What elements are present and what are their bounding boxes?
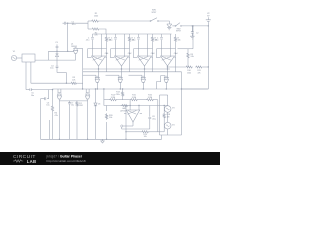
wire (82, 48, 84, 89)
wire (123, 125, 133, 127)
svg-text:http://circuitlab.com/c/3kdvx8: http://circuitlab.com/c/3kdvx8 (47, 159, 86, 163)
source V3 (164, 106, 171, 113)
svg-text:150k: 150k (187, 72, 191, 74)
svg-text:10u: 10u (50, 68, 53, 70)
wire (129, 43, 131, 72)
resistor R10 (185, 66, 193, 68)
wire (30, 62, 32, 83)
wire (122, 97, 124, 100)
svg-text:10u: 10u (31, 95, 34, 97)
junction (82, 88, 83, 89)
wire (121, 72, 123, 78)
junction (181, 88, 182, 89)
wire (172, 25, 175, 27)
wire box left (159, 95, 161, 135)
wire (25, 62, 27, 90)
wire (88, 28, 91, 30)
wire (138, 106, 140, 111)
op-amp OA3 (138, 56, 152, 66)
wire (138, 34, 140, 37)
wire box right (181, 72, 183, 135)
wire (106, 34, 108, 36)
svg-text:3.9M: 3.9M (132, 97, 137, 99)
wire (191, 26, 193, 30)
resistor R11 (195, 66, 203, 68)
wire (106, 43, 108, 72)
wire (92, 34, 94, 37)
wire (167, 66, 169, 72)
wire (87, 99, 89, 139)
svg-text:1M: 1M (167, 116, 170, 118)
wire (98, 66, 100, 72)
wire (88, 57, 92, 59)
junction (166, 88, 167, 89)
wire (124, 34, 126, 56)
resistor R6 (128, 36, 130, 43)
wire (138, 99, 145, 101)
junction (208, 25, 209, 26)
junction (125, 105, 126, 106)
svg-text:.05u: .05u (109, 40, 113, 42)
wire (118, 75, 120, 77)
wire (83, 74, 96, 76)
wire (117, 99, 129, 101)
junction (143, 88, 144, 89)
jack J1 (22, 54, 35, 62)
junction (95, 88, 96, 89)
wire (122, 89, 124, 91)
wire (203, 66, 208, 68)
wire (17, 57, 22, 59)
wire (134, 57, 138, 59)
diode D2 (56, 51, 59, 60)
switch SW1 (150, 20, 151, 21)
wire (48, 90, 50, 99)
op-amp OA2 (115, 56, 129, 66)
wire (115, 34, 117, 37)
ground (190, 35, 195, 39)
wire (111, 57, 115, 59)
wire (142, 82, 144, 89)
wire (161, 135, 163, 139)
wire (76, 107, 78, 139)
svg-text:SPST: SPST (152, 12, 158, 14)
wire (159, 21, 170, 24)
svg-text:10u: 10u (71, 105, 74, 107)
junction (138, 105, 139, 106)
diode D1 (167, 24, 172, 30)
junction (125, 131, 126, 132)
wire (78, 82, 83, 84)
junction (67, 23, 68, 24)
resistor R9 (187, 52, 189, 59)
wire (100, 29, 106, 34)
node bias bus (53, 88, 209, 90)
node feedback (121, 125, 123, 127)
svg-text:24k: 24k (191, 56, 194, 58)
wire (59, 100, 87, 102)
capacitor C7 (91, 38, 94, 39)
wire (47, 98, 49, 100)
wire (122, 128, 150, 130)
op-amp OA4 (161, 56, 175, 66)
wire (152, 34, 154, 36)
battery V2 (206, 17, 211, 22)
wire (129, 74, 142, 76)
node ground bus (41, 138, 162, 140)
wire (100, 20, 151, 22)
resistor R18 (163, 113, 165, 120)
transistor Q3 (118, 76, 123, 82)
svg-text:OA4: OA4 (174, 52, 178, 55)
svg-text:.05u: .05u (86, 40, 90, 42)
resistor R8 (174, 36, 176, 43)
svg-text:10k: 10k (178, 40, 181, 42)
wire (147, 34, 149, 56)
wire (57, 72, 66, 74)
wire (129, 100, 131, 110)
wire (175, 57, 176, 59)
wire (167, 72, 169, 78)
wire (85, 89, 87, 93)
svg-text:10k: 10k (144, 136, 147, 138)
svg-text:3.9M: 3.9M (148, 97, 153, 99)
resistor R2 (91, 28, 100, 30)
svg-text:.05u: .05u (132, 40, 136, 42)
footer bar (0, 152, 220, 165)
wire (41, 98, 45, 100)
capacitor C9 (137, 38, 140, 39)
source V4 (164, 122, 171, 129)
junction (66, 83, 67, 84)
svg-text:OA1: OA1 (105, 52, 109, 55)
svg-text:2N5952: 2N5952 (71, 46, 77, 48)
node bus A (83, 68, 170, 70)
wire (52, 90, 54, 105)
svg-text:150k: 150k (94, 15, 98, 17)
wire (96, 82, 98, 89)
wire (87, 49, 89, 58)
node bus B (83, 71, 182, 73)
resistor R3 (70, 82, 78, 84)
capacitor C6 (45, 97, 46, 100)
wire box top (160, 94, 168, 96)
svg-text:D3: D3 (98, 104, 100, 106)
resistor R7 (151, 36, 153, 43)
junction (208, 66, 209, 67)
wire (121, 127, 123, 129)
wire (132, 122, 134, 126)
ground (101, 139, 105, 143)
wire (175, 34, 177, 36)
wire (154, 99, 157, 101)
wire (161, 34, 163, 37)
resistor R15 (130, 99, 139, 101)
wire (65, 73, 67, 84)
wire (150, 131, 165, 133)
svg-text:.05u: .05u (155, 40, 159, 42)
junction (192, 25, 193, 26)
wire (161, 40, 163, 56)
wire (106, 57, 107, 59)
junction (192, 25, 193, 26)
wire (121, 66, 123, 72)
transistor Q4 (141, 76, 146, 82)
junction (164, 105, 165, 106)
capacitor C3 (56, 44, 59, 51)
junction (59, 139, 60, 140)
wire +9V rail (207, 26, 209, 89)
wire feedback box top (111, 48, 130, 50)
wire (92, 40, 94, 56)
op-amp OA1 (92, 56, 106, 66)
junction (52, 89, 53, 90)
wire (95, 75, 97, 77)
wire (133, 49, 135, 58)
wire (175, 43, 177, 72)
junction (167, 66, 168, 67)
wire (48, 51, 50, 60)
wire (31, 82, 70, 84)
svg-text:10k: 10k (109, 117, 112, 119)
transistor Q6 (57, 93, 62, 99)
junction (122, 88, 123, 89)
wire feedback drop (125, 106, 127, 140)
junction (67, 51, 68, 52)
wire (192, 26, 194, 49)
wire (178, 48, 194, 50)
wire (129, 57, 130, 59)
wire (60, 89, 62, 93)
svg-text:47k: 47k (197, 72, 200, 74)
junction (125, 139, 126, 140)
resistor R14 (109, 99, 118, 101)
wire (40, 99, 42, 140)
wire power stub (124, 113, 126, 115)
wire power stub (140, 113, 142, 115)
resistor R19 (141, 131, 150, 133)
svg-text:3.9M: 3.9M (111, 97, 116, 99)
wire (165, 82, 167, 89)
resistor R20 (106, 113, 108, 120)
resistor R17 (121, 104, 129, 106)
wire (141, 75, 143, 77)
wire (88, 89, 90, 93)
capacitor C8 (114, 38, 117, 39)
wire (52, 112, 54, 139)
node stage feed (93, 33, 172, 35)
wire (26, 89, 29, 91)
transistor Q1 (73, 47, 78, 53)
capacitor C1 (63, 22, 68, 25)
op-amp OA5 (126, 110, 139, 122)
wire (157, 57, 161, 59)
wire (67, 23, 69, 51)
wire (156, 49, 158, 58)
resistor R16 (146, 99, 155, 101)
resistor R12 (76, 101, 78, 108)
wire (119, 82, 121, 89)
junction (129, 105, 130, 106)
wire (187, 49, 189, 52)
wire (49, 120, 51, 139)
wire (88, 20, 91, 22)
wire (115, 40, 117, 56)
wire (106, 74, 119, 76)
resistor R1 (91, 20, 100, 22)
wire jack output (35, 59, 76, 61)
junction (87, 139, 88, 140)
resistor R13 (122, 91, 124, 98)
diode D3 (94, 89, 97, 139)
wire (106, 122, 108, 139)
wire (106, 106, 108, 112)
wire (49, 50, 75, 52)
wire (167, 129, 169, 135)
wire feedback box top (88, 48, 107, 50)
wire box bottom (160, 134, 182, 136)
wire (103, 89, 105, 106)
junction (121, 68, 122, 69)
svg-text:LAB: LAB (27, 159, 37, 164)
wire (163, 119, 165, 132)
transistor Q5 (164, 76, 169, 82)
svg-text:jkhsjd7 / Guitar Phaser: jkhsjd7 / Guitar Phaser (46, 154, 83, 158)
wire (101, 34, 103, 56)
capacitor C8 (148, 106, 151, 130)
resistor R4 (51, 105, 53, 113)
wire (58, 99, 60, 139)
signal source V1 (11, 55, 16, 60)
wire feedback box top (134, 48, 153, 50)
wire (144, 72, 146, 78)
junction (167, 68, 168, 69)
wire (110, 49, 112, 58)
capacitor C4 (56, 60, 59, 72)
junction (56, 51, 57, 52)
junction (98, 68, 99, 69)
svg-text:470k: 470k (115, 94, 119, 96)
junction (144, 68, 145, 69)
transistor Q2 (95, 76, 100, 82)
wire (67, 22, 88, 24)
wire (167, 66, 185, 68)
svg-text:47k: 47k (94, 35, 97, 37)
node LFO wire (104, 105, 168, 107)
svg-text:47k: 47k (55, 115, 58, 117)
wire (163, 106, 165, 113)
wire (76, 100, 78, 102)
wire (33, 89, 53, 91)
wire (152, 57, 153, 59)
junction (120, 88, 121, 89)
wire (57, 89, 59, 93)
capacitor C10 (160, 38, 163, 39)
junction (106, 139, 107, 140)
wire (182, 88, 209, 90)
svg-text:22k: 22k (72, 79, 75, 81)
wire (157, 76, 165, 89)
svg-text:OA2: OA2 (128, 52, 132, 55)
wire (170, 34, 172, 56)
svg-text:10u: 10u (46, 105, 49, 107)
wire (152, 43, 154, 72)
wire feedback box top (157, 48, 176, 50)
svg-text:.01u: .01u (72, 24, 76, 26)
switch SW2 (175, 25, 176, 26)
svg-text:.05u: .05u (152, 118, 156, 120)
wire (187, 59, 189, 67)
wire (69, 106, 71, 139)
capacitor C2 (191, 30, 194, 35)
wire (167, 95, 169, 106)
svg-text:C2: C2 (196, 32, 198, 34)
wire (87, 21, 89, 29)
junction (103, 88, 104, 89)
svg-text:OA3: OA3 (151, 52, 155, 55)
wire (207, 23, 209, 26)
wire (138, 40, 140, 56)
wire (78, 47, 83, 49)
wire (167, 112, 169, 122)
capacitor C5 (28, 88, 33, 91)
svg-text:SPST: SPST (176, 31, 182, 33)
wire (104, 99, 109, 101)
wire output (126, 131, 141, 133)
wire (157, 100, 159, 132)
wire (98, 72, 100, 78)
wire (129, 34, 131, 36)
resistor R5 (105, 36, 107, 43)
wire (144, 66, 146, 72)
capacitor C7 (68, 101, 71, 106)
transistor Q7 (85, 93, 90, 99)
wire (182, 25, 209, 27)
junction (97, 88, 98, 89)
